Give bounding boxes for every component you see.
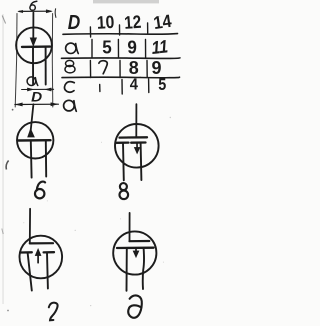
extension tick right top	[54, 9, 57, 18]
svg-text:14: 14	[152, 11, 173, 33]
gate bar (fig d)	[130, 240, 150, 242]
dimension b arrow right	[46, 10, 52, 13]
scan tick mid left	[2, 229, 3, 235]
gate lead (fig a)	[32, 13, 34, 40]
table: column tick 1 header	[89, 27, 91, 37]
transistor Q5 case circle	[113, 231, 156, 274]
drain lead (fig v)	[140, 143, 143, 180]
substrate arrow up (fig g)	[37, 255, 39, 263]
source lead (fig b)	[30, 141, 33, 178]
table: column tick 3 row c	[148, 79, 150, 93]
dimension a line	[22, 88, 54, 90]
svg-text:9: 9	[127, 37, 136, 58]
transistor Q4 (fig g, n-channel MOSFET induced) : gate lead	[29, 209, 31, 244]
svg-text:D: D	[31, 90, 42, 105]
table: column tick 1 row a	[91, 40, 93, 58]
table: column tick 2 row a	[117, 40, 119, 58]
transistor Q2 (fig b, p-channel JFET) : gate lead	[31, 104, 34, 130]
label a (lead spacing dimension)	[27, 77, 38, 86]
label g (fig g)	[49, 303, 58, 321]
channel line (fig d)	[117, 247, 154, 250]
table row label a	[66, 43, 79, 53]
channel bar (fig a)	[22, 45, 50, 48]
dimension b arrow left	[18, 10, 23, 13]
channel segment right (fig v)	[131, 141, 145, 143]
table: column tick 2 header	[119, 25, 121, 35]
svg-text:5: 5	[158, 76, 166, 94]
svg-text:8: 8	[129, 57, 139, 78]
transistor Q3 (fig v, p-channel MOSFET induced) : gate lead	[135, 104, 137, 137]
scan tick upper left	[2, 16, 5, 24]
transistor Q5 (fig d, p-channel MOSFET built-in) : gate lead	[129, 213, 131, 241]
channel segment right (fig g)	[44, 251, 54, 253]
scan streak left edge	[2, 14, 4, 304]
table: column tick 3 row v	[146, 61, 148, 78]
svg-text:12: 12	[124, 12, 142, 33]
dimension D arrow left	[16, 103, 22, 106]
table: column tick 1 row v	[89, 61, 91, 78]
transistor Q3 case circle	[115, 124, 159, 168]
dimension a arrow right	[46, 88, 52, 91]
source lead (fig d)	[126, 248, 128, 291]
substrate arrow down (fig v)	[136, 143, 138, 149]
dimension a arrow left	[27, 88, 33, 91]
source lead (fig v)	[122, 143, 125, 180]
table: line under row a	[62, 57, 181, 60]
drain lead (fig a)	[45, 47, 47, 85]
label b (dimension)	[30, 1, 37, 10]
gate bar (fig g)	[30, 242, 53, 244]
source lead (fig a)	[32, 47, 34, 85]
table: column tick 2 row v	[119, 61, 121, 78]
label a (fig a sublabel under table)	[64, 100, 77, 111]
table: column tick 3 row a	[145, 40, 147, 58]
channel segment left (fig v)	[117, 141, 129, 143]
scan dot left margin	[12, 109, 14, 111]
substrate arrow down (fig d)	[135, 248, 137, 252]
label b (fig b)	[35, 182, 45, 199]
scan speckles	[23, 16, 171, 307]
svg-text:10: 10	[96, 12, 115, 33]
table: line under row v	[62, 76, 180, 79]
svg-text:4: 4	[130, 77, 138, 94]
svg-text:D: D	[68, 12, 81, 34]
source lead (fig g)	[28, 253, 32, 291]
dimension D arrow right	[51, 103, 57, 106]
table: column tick 2 row c	[121, 80, 123, 95]
svg-text:5: 5	[102, 37, 112, 58]
transistor U1 (fig a, dimensioned JFET case) : extension line left	[15, 14, 17, 108]
drain lead (fig g)	[46, 253, 49, 289]
dimension b line	[19, 10, 51, 12]
label v (fig v)	[120, 183, 129, 199]
gate arrow down (fig a)	[30, 38, 36, 46]
table row label c	[64, 82, 74, 93]
label d (fig d)	[127, 295, 143, 318]
transistor Q2 case circle	[17, 122, 53, 158]
scan mark left margin	[6, 161, 9, 170]
scan smudge top edge	[93, 0, 159, 3]
table: column tick 3 header	[147, 23, 149, 33]
table: header separator line	[63, 33, 178, 36]
scan dot bottom left	[7, 310, 9, 312]
table value v-10 : 7	[99, 61, 107, 74]
transistor Q4 case circle	[20, 236, 63, 279]
drain lead (fig b)	[45, 141, 47, 177]
svg-text:11: 11	[150, 36, 169, 58]
gate arrow up (fig b)	[28, 129, 35, 137]
transistor U1 case circle	[16, 27, 52, 63]
svg-text:9: 9	[152, 57, 162, 78]
table: column tick 1 row c	[99, 85, 101, 92]
gate bar (fig v)	[120, 136, 148, 139]
dimension D line	[15, 103, 59, 105]
extension line right	[51, 14, 54, 108]
drain lead (fig d)	[143, 248, 144, 289]
table row label v	[65, 60, 75, 73]
channel segment left (fig g)	[21, 251, 32, 253]
channel bar (fig b)	[18, 139, 50, 142]
